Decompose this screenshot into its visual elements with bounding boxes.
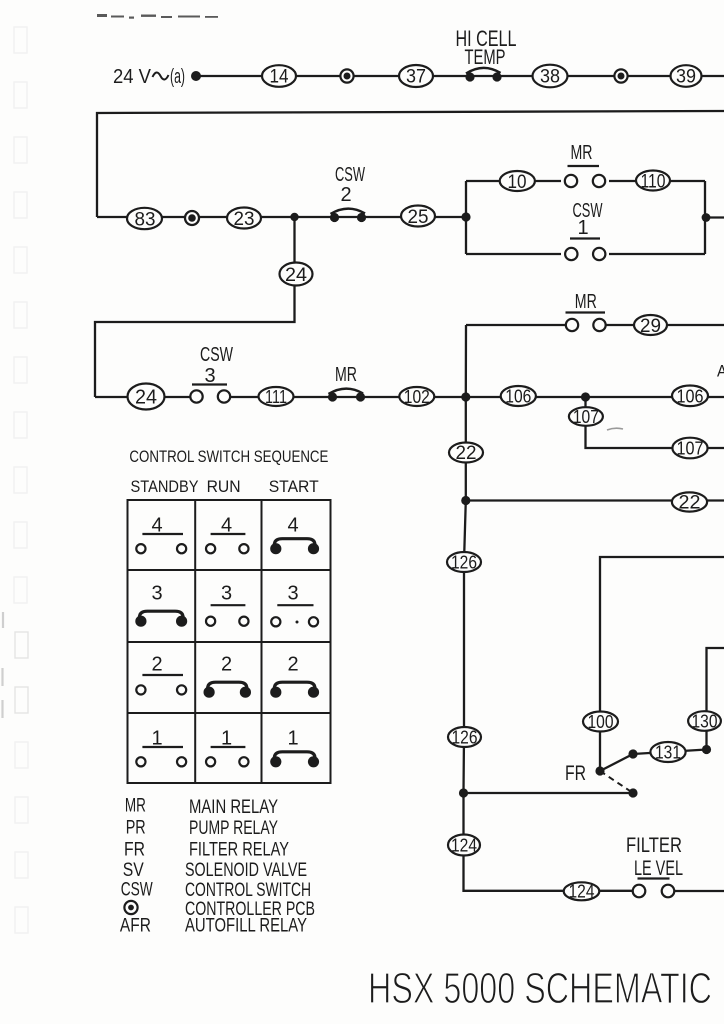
svg-text:14: 14 <box>270 67 289 88</box>
wire: row 22 <box>466 499 724 501</box>
svg-text:124: 124 <box>569 882 595 902</box>
svg-text:22: 22 <box>679 493 701 514</box>
node 37 <box>399 65 433 88</box>
contact CSW 3 (open) <box>190 344 233 403</box>
svg-text:FR: FR <box>565 762 586 785</box>
node 110 <box>636 171 670 193</box>
node 111 <box>259 387 294 407</box>
table cell STANDBY-2 (open) <box>136 654 186 695</box>
svg-text:22: 22 <box>456 443 477 464</box>
node 107 <box>569 407 603 427</box>
wire: branch 107 <box>586 397 724 448</box>
svg-text:107: 107 <box>677 439 704 459</box>
svg-text:126: 126 <box>451 553 477 573</box>
legend CSW <box>121 880 311 901</box>
contact MR (open) upper branch <box>565 142 605 187</box>
wire: row 106 <box>466 396 724 398</box>
svg-text:PUMP RELAY: PUMP RELAY <box>189 818 278 839</box>
wire: 24V (a) supply rail <box>196 75 724 77</box>
svg-text:STANDBY: STANDBY <box>131 477 199 496</box>
table cell STANDBY-3 (closed) <box>135 582 187 626</box>
contact MR (closed) row 4 <box>328 364 365 402</box>
node 100 (on branch) <box>583 712 618 733</box>
svg-text:CONTROL SWITCH: CONTROL SWITCH <box>185 880 311 901</box>
wire: stub to right edge <box>705 216 724 218</box>
table cell STANDBY-1 (open) <box>136 727 186 766</box>
node 124 (on bus) <box>448 835 480 856</box>
svg-text:HSX 5000 SCHEMATIC: HSX 5000 SCHEMATIC <box>368 964 712 1013</box>
svg-text:24 V: 24 V <box>113 66 152 88</box>
node 83 <box>127 208 162 231</box>
legend SV <box>123 860 307 881</box>
table cell RUN-1 (open) <box>206 727 248 766</box>
legend AFR <box>120 916 307 937</box>
table cell RUN-2 (closed) <box>204 654 251 698</box>
table cell START-4 (closed) <box>270 515 319 555</box>
contact FILTER LEVEL (open) <box>626 834 683 897</box>
svg-text:MR: MR <box>571 142 593 164</box>
node 14 <box>262 65 296 87</box>
wire: parallel branch frame left/top/bottom/right <box>466 181 705 254</box>
junction: FR NC contact <box>628 788 637 797</box>
svg-text:24: 24 <box>135 387 157 409</box>
svg-text:3: 3 <box>151 582 162 604</box>
node 106 <box>501 386 536 407</box>
node 38 <box>533 65 568 88</box>
svg-text:RUN: RUN <box>207 477 241 496</box>
svg-text:SOLENOID VALVE: SOLENOID VALVE <box>185 860 307 881</box>
svg-text:AFR: AFR <box>120 916 151 937</box>
svg-text:3: 3 <box>221 582 232 604</box>
junction: bus at row 4 <box>461 392 470 401</box>
legend MR <box>125 796 278 818</box>
svg-text:124: 124 <box>451 836 477 856</box>
svg-text:106: 106 <box>505 387 531 407</box>
svg-text:24: 24 <box>285 265 307 286</box>
node 39 <box>671 65 702 87</box>
wire: FR common feed and 100 branch <box>600 557 724 771</box>
svg-text:107: 107 <box>573 407 599 427</box>
svg-text:MR: MR <box>335 364 357 386</box>
wire: branch down through 24 to row CSW3 <box>95 217 295 397</box>
controller PCB connection <box>185 211 199 225</box>
table cell START-3 (open) <box>271 582 318 626</box>
wire: main vertical bus <box>464 325 467 890</box>
wire: row 83-25 <box>97 216 466 218</box>
legend controller PCB symbol <box>124 899 315 920</box>
svg-text:37: 37 <box>406 67 426 88</box>
svg-text:2: 2 <box>221 654 232 676</box>
svg-text:2: 2 <box>340 184 351 206</box>
svg-text:10: 10 <box>508 172 527 193</box>
node 130 (on branch) <box>688 711 721 731</box>
svg-text:23: 23 <box>234 209 255 230</box>
contact MR (open) row 29 <box>566 291 606 331</box>
svg-text:3: 3 <box>287 582 298 604</box>
svg-text:CSW: CSW <box>335 164 365 186</box>
wire: FR alternate position (dashed) <box>600 771 633 793</box>
node 25 <box>401 206 435 229</box>
svg-text:83: 83 <box>135 210 156 231</box>
svg-text:25: 25 <box>408 207 429 228</box>
node 24 <box>280 263 313 287</box>
table cell RUN-4 (open) <box>206 515 248 554</box>
node: 24V terminal dot <box>191 71 201 81</box>
node 126 (upper, on bus) <box>447 552 481 573</box>
node 22 (on bus) <box>449 443 483 465</box>
svg-text:CSW: CSW <box>200 344 233 366</box>
table cell START-1 (closed) <box>270 727 319 767</box>
junction: bus to FR row <box>459 788 468 797</box>
svg-text:CSW: CSW <box>121 880 153 901</box>
node 102 <box>399 387 434 407</box>
node 126 (lower, on bus) <box>448 727 481 748</box>
table cell START-2 (closed) <box>270 654 319 698</box>
scan mark <box>607 428 623 430</box>
svg-text:1: 1 <box>577 217 588 239</box>
svg-text:102: 102 <box>404 387 430 407</box>
table: grid <box>128 500 331 783</box>
svg-text:100: 100 <box>588 712 614 732</box>
svg-text:110: 110 <box>641 172 666 193</box>
node 24V supply label <box>113 66 185 88</box>
node 24 (row 4) <box>128 384 165 410</box>
contact: HI CELL TEMP (closed) <box>456 26 517 82</box>
table cell STANDBY-4 (open) <box>136 515 186 554</box>
svg-text:(a): (a) <box>170 66 185 88</box>
junction: left of parallel branch <box>461 212 470 221</box>
svg-text:LE VEL: LE VEL <box>634 857 683 880</box>
node 29 <box>634 315 667 337</box>
junction: branch to 107 <box>581 392 590 401</box>
svg-text:2: 2 <box>151 654 162 676</box>
svg-text:PR: PR <box>126 818 146 839</box>
svg-text:SV: SV <box>123 860 144 881</box>
node 23 <box>227 208 261 231</box>
wire: row 24/111/102 <box>95 396 466 398</box>
legend PR <box>126 818 279 840</box>
junction: 130/131 meet <box>702 745 711 754</box>
wire: MR/29 row <box>466 324 724 326</box>
node 10 <box>500 171 535 193</box>
wire: top feeder rail <box>97 111 724 217</box>
svg-text:29: 29 <box>640 316 661 337</box>
svg-text:106: 106 <box>677 386 704 406</box>
node 106 (right) <box>672 386 708 407</box>
svg-text:130: 130 <box>692 712 718 732</box>
svg-text:111: 111 <box>265 387 287 407</box>
contact CSW 2 (closed) <box>330 164 366 222</box>
wire: FR moving contact (solid, to 131) <box>600 750 707 772</box>
svg-text:MR: MR <box>125 796 146 817</box>
svg-text:38: 38 <box>540 67 560 88</box>
svg-text:START: START <box>269 477 319 496</box>
wire: branch 130 from right edge <box>707 648 724 750</box>
svg-text:MAIN RELAY: MAIN RELAY <box>189 797 278 818</box>
junction: FR common <box>595 766 604 775</box>
junction: bus to 22 row <box>461 496 470 505</box>
svg-text:CONTROL SWITCH SEQUENCE: CONTROL SWITCH SEQUENCE <box>129 448 328 466</box>
junction: FR NO contact <box>628 749 637 758</box>
svg-text:131: 131 <box>655 743 681 763</box>
legend FR <box>124 840 289 861</box>
controller PCB connection <box>614 69 627 82</box>
svg-text:TEMP: TEMP <box>465 46 506 69</box>
node 131 <box>650 742 685 763</box>
node 22 (right) <box>672 492 707 513</box>
svg-text:MR: MR <box>575 291 597 313</box>
svg-text:AF: AF <box>717 362 724 381</box>
contact CSW 1 (open) lower branch <box>565 200 605 260</box>
controller PCB connection <box>340 69 353 82</box>
svg-text:FR: FR <box>124 840 145 861</box>
svg-text:39: 39 <box>676 67 696 88</box>
wire: bus to FR NC contact <box>464 792 634 794</box>
table cell RUN-3 (open) <box>206 582 248 625</box>
svg-text:126: 126 <box>452 728 478 748</box>
junction: branch to 24 <box>290 213 298 221</box>
svg-text:4: 4 <box>287 515 298 537</box>
wire: filter level row <box>464 890 724 892</box>
node 107 (right) <box>672 438 707 459</box>
node 124 (row) <box>564 882 600 902</box>
svg-text:2: 2 <box>287 654 298 676</box>
svg-text:1: 1 <box>287 727 298 749</box>
svg-text:FILTER RELAY: FILTER RELAY <box>189 840 289 861</box>
svg-text:AUTOFILL RELAY: AUTOFILL RELAY <box>185 916 307 937</box>
svg-text:FILTER: FILTER <box>626 834 682 857</box>
junction: right of parallel branch <box>702 213 711 222</box>
